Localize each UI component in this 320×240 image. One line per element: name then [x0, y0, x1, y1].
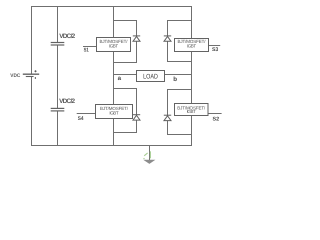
svg-text:a: a: [118, 75, 122, 82]
svg-text:VDC: VDC: [10, 73, 20, 79]
ground arrow: [143, 160, 155, 164]
wire S1 diode branch vertical: [136, 20, 138, 63]
wire S3 diode loop bottom: [168, 61, 192, 63]
svg-text:IGBT: IGBT: [109, 111, 118, 116]
wire S2 diode loop bottom: [168, 134, 192, 136]
diode D3 (antiparallel, top-right): [164, 36, 171, 41]
wire capacitor leg vertical middle: [57, 46, 59, 109]
wire VDC left vertical upper: [31, 6, 33, 74]
svg-text:S2: S2: [213, 117, 220, 123]
wire right leg vertical: [191, 6, 193, 146]
svg-text:S4: S4: [78, 116, 84, 122]
svg-text:S3: S3: [212, 47, 218, 53]
switch S2 box BJT/MOSFET/IGBT: [175, 104, 209, 116]
wire S3 diode branch vertical: [167, 20, 169, 62]
battery VDC minus tick: [34, 77, 36, 79]
svg-text:IGBT: IGBT: [109, 43, 118, 48]
ground stub wire: [149, 146, 151, 161]
svg-text:b: b: [173, 76, 177, 83]
wire S2 gate stub: [208, 113, 222, 115]
wire S1 diode loop bottom: [114, 62, 137, 64]
wire VDC left vertical lower: [31, 76, 33, 146]
wire S4 diode branch vertical: [136, 88, 138, 133]
wire capacitor leg vertical lower: [57, 111, 59, 146]
svg-text:VDC/2: VDC/2: [59, 33, 75, 40]
svg-text:LOAD: LOAD: [143, 73, 158, 80]
diode D1 (antiparallel, top-left): [133, 36, 140, 41]
wire bottom rail: [31, 145, 192, 147]
svg-text:IGBT: IGBT: [187, 109, 196, 114]
wire S2 diode branch vertical: [167, 89, 169, 135]
battery VDC plus sign: [34, 70, 36, 72]
switch S4 box BJT/MOSFET/IGBT: [96, 105, 133, 119]
svg-text:VDC/2: VDC/2: [59, 98, 75, 105]
svg-text:IGBT: IGBT: [187, 44, 196, 49]
wire left leg vertical: [113, 6, 115, 146]
switch S1 box BJT/MOSFET/IGBT: [97, 38, 131, 52]
wire S1 diode loop top: [114, 20, 137, 22]
ground green marks: [143, 151, 150, 158]
wire S3 gate stub: [208, 45, 220, 47]
switch S3 box BJT/MOSFET/IGBT: [175, 39, 209, 52]
wire S3 diode loop top: [168, 20, 192, 22]
diode D2 (antiparallel, bottom-right): [164, 115, 171, 120]
LOAD box: [137, 71, 165, 82]
wire S4 diode loop bottom: [114, 132, 137, 134]
wire S4 diode loop top: [114, 88, 137, 90]
wire S2 diode loop top: [168, 89, 192, 91]
diode D4 (antiparallel, bottom-left): [133, 115, 140, 120]
battery VDC plates: [23, 74, 39, 76]
wire mid rail node a to node b: [114, 74, 192, 76]
capacitor C1 plates: [51, 43, 65, 46]
svg-text:S1: S1: [84, 48, 89, 54]
wire top rail: [31, 6, 192, 8]
capacitor C2 plates: [51, 108, 65, 111]
wire S1 gate stub: [83, 46, 97, 48]
wire capacitor leg vertical upper: [57, 6, 59, 42]
wire S4 gate stub: [77, 113, 97, 115]
